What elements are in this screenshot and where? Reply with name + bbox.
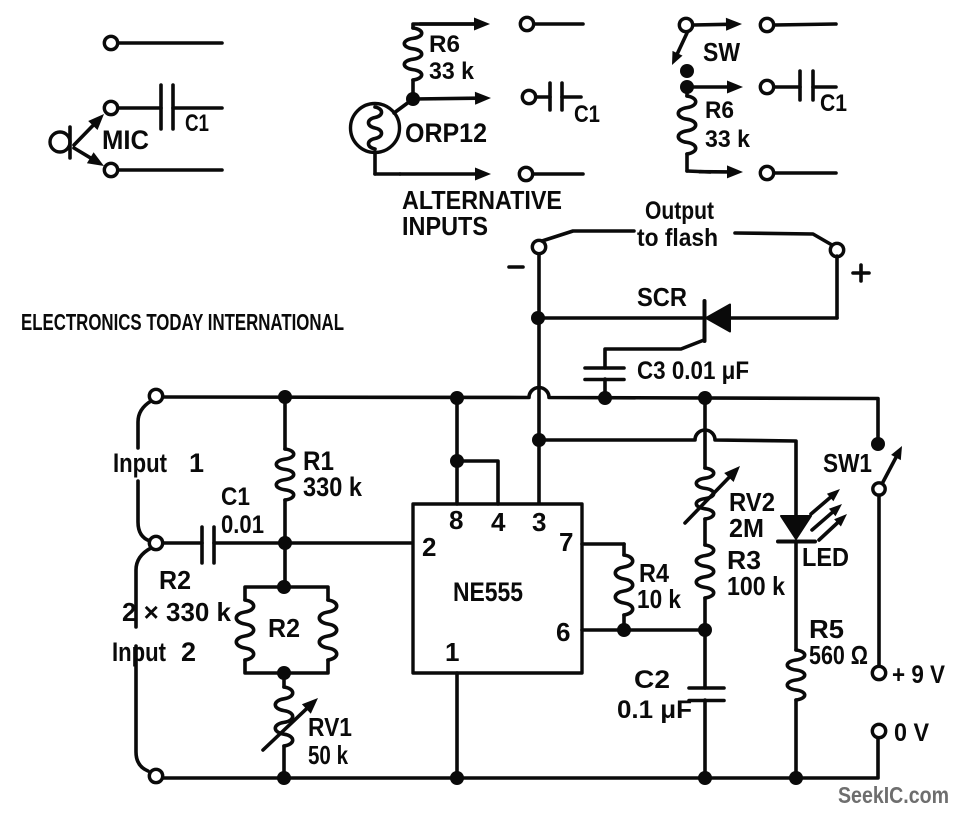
potentiometer RV1 (275, 673, 292, 778)
label 100 k (727, 571, 785, 601)
svg-text:SW1: SW1 (823, 448, 872, 478)
label ALTERNATIVE (402, 185, 562, 215)
label R4 (639, 558, 669, 588)
capacitor C1 (input) (163, 527, 278, 563)
label minus (509, 265, 523, 269)
label R1 (303, 446, 334, 476)
label R2 (268, 613, 300, 643)
arrow led light 1 (811, 489, 840, 514)
svg-text:50 k: 50 k (308, 740, 348, 770)
svg-text:10 k: 10 k (637, 584, 681, 614)
svg-text:C3 0.01 μF: C3 0.01 μF (637, 357, 749, 385)
wire bottom bus (163, 738, 878, 778)
label pin 1 (445, 637, 459, 667)
label SeekIC.com watermark (838, 782, 949, 808)
wire pin4 (457, 461, 498, 504)
label 10 k (637, 584, 681, 614)
svg-text:1: 1 (189, 448, 204, 478)
terminal alt mid (522, 90, 550, 103)
capacitor C3 (585, 368, 624, 398)
label to flash (637, 224, 718, 252)
node R2 top (277, 580, 291, 594)
node junction orp12 (406, 92, 420, 106)
wire scr gate (605, 340, 704, 368)
node scr anode (531, 311, 545, 325)
label NE555 (453, 577, 523, 607)
label 33 k (sw) (705, 126, 751, 153)
label pin 7 (559, 527, 573, 557)
svg-text:Input: Input (112, 637, 166, 667)
node SW1 top (871, 437, 885, 451)
arrow orp12 mid (413, 92, 491, 105)
label pin 2 (422, 532, 436, 562)
potentiometer RV2 (696, 398, 713, 545)
svg-text:MIC: MIC (102, 125, 149, 155)
svg-text:6: 6 (556, 617, 570, 647)
wire SW1 to +9V (877, 495, 881, 666)
label 560 ohm (809, 640, 868, 670)
svg-text:0 V: 0 V (894, 719, 929, 747)
label C1 (alt) (574, 101, 600, 128)
thyristor SCR (705, 256, 838, 341)
svg-text:33 k: 33 k (429, 58, 475, 85)
terminal alt top (520, 17, 583, 30)
label 33 k (orp12) (429, 58, 475, 85)
wire pin6 (582, 628, 705, 632)
resistor R6 (sw) (678, 93, 710, 172)
node R2 bottom (277, 666, 291, 680)
label R6 (sw) (705, 97, 734, 124)
terminal mic bottom (104, 163, 222, 176)
label C2 (634, 666, 670, 694)
svg-text:C1: C1 (221, 483, 250, 511)
svg-text:330 k: 330 k (303, 472, 363, 502)
terminal sw top-right (760, 18, 836, 31)
node bottom R5 (789, 771, 803, 785)
resistor R3 (696, 545, 713, 630)
capacitor C1 (sw) (800, 71, 836, 100)
label pin 3 (532, 507, 546, 537)
label Input 2 (112, 637, 196, 667)
svg-text:INPUTS: INPUTS (402, 211, 488, 241)
svg-text:to flash: to flash (637, 224, 718, 252)
label 0.01 (221, 511, 264, 539)
wire pin3 output line (539, 430, 796, 516)
label R5 (809, 614, 844, 644)
arrow RV1 (263, 698, 318, 750)
label R6 (orp12) (429, 31, 460, 58)
arrow sw top (693, 18, 742, 31)
node pin3 junction (532, 433, 546, 447)
arrow RV2 (685, 466, 740, 523)
terminal input1 (149, 389, 162, 402)
label RV1 (308, 712, 352, 742)
terminal bottom-left (149, 769, 162, 782)
label 0.1 uF (617, 696, 692, 724)
resistor R6 (orp12) (404, 24, 480, 99)
capacitor C2 (689, 630, 724, 778)
svg-text:33 k: 33 k (705, 126, 751, 153)
wire input1-2 link (138, 481, 150, 541)
label Output (645, 197, 715, 225)
svg-text:NE555: NE555 (453, 577, 523, 607)
led LED (778, 516, 815, 650)
capacitor C1 (alt) (550, 83, 581, 110)
svg-text:C1: C1 (574, 101, 600, 128)
svg-text:R2: R2 (268, 613, 300, 643)
label pin 8 (449, 505, 463, 535)
wire input1 lead (138, 401, 151, 448)
terminal input2 (149, 536, 162, 549)
node bottom pin1 (450, 771, 464, 785)
node bottom C2 (698, 771, 712, 785)
svg-text:2: 2 (181, 637, 196, 667)
label R2 left (159, 565, 191, 595)
svg-text:SeekIC.com: SeekIC.com (838, 782, 949, 808)
svg-text:ELECTRONICS TODAY INTERNATIONA: ELECTRONICS TODAY INTERNATIONAL (21, 309, 344, 335)
svg-text:Output: Output (645, 197, 715, 225)
label RV2 (729, 487, 775, 517)
wire output left (542, 231, 634, 241)
label R3 (727, 545, 761, 575)
wire pin1 (455, 673, 459, 778)
node sw dot lower (680, 80, 694, 94)
microphone MIC symbol (50, 127, 70, 158)
label C3 0.01 uF (637, 357, 749, 385)
svg-text:C2: C2 (634, 666, 670, 694)
terminal sw top-left (679, 18, 692, 31)
resistor R5 (787, 650, 804, 778)
svg-text:R2: R2 (159, 565, 191, 595)
node pin4 junction (450, 454, 464, 468)
svg-text:1: 1 (445, 637, 459, 667)
ic NE555 box (413, 504, 582, 673)
node bus pin8 (450, 391, 464, 405)
svg-text:2: 2 (422, 532, 436, 562)
resistor R4 (615, 544, 632, 630)
svg-text:R6: R6 (429, 31, 460, 58)
node sw dot upper (680, 64, 694, 78)
terminal mic top (104, 36, 222, 49)
node bus RV2 (698, 391, 712, 405)
label 50 k (308, 740, 348, 770)
svg-text:2 × 330 k: 2 × 330 k (122, 597, 232, 627)
label C1 (input) (221, 483, 250, 511)
label MIC (102, 125, 149, 155)
terminal sw bottom-right (760, 166, 836, 179)
switch SW1 pole (873, 483, 885, 495)
terminal alt bottom (519, 167, 583, 180)
arrow sw mid (694, 81, 743, 94)
label +9V (892, 661, 945, 689)
node bus R1 (278, 390, 292, 404)
capacitor C1 (mic) (161, 85, 222, 129)
node bus C3 (598, 391, 612, 405)
svg-text:3: 3 (532, 507, 546, 537)
label 2M (729, 513, 764, 543)
label C1 (sw) (820, 90, 847, 117)
wire pin7 (582, 542, 624, 546)
label 0V (894, 719, 929, 747)
svg-text:4: 4 (491, 507, 506, 537)
label C1 (mic) (185, 110, 209, 137)
svg-text:SCR: SCR (637, 282, 687, 312)
label pin 4 (491, 507, 506, 537)
svg-text:LED: LED (802, 542, 849, 572)
arrow orp12 top (420, 18, 490, 31)
terminal output minus (532, 240, 545, 253)
resistor R1 (276, 398, 293, 543)
svg-text:2M: 2M (729, 513, 764, 543)
wire orp12 bottom (375, 168, 491, 181)
node bottom RV1 (277, 771, 291, 785)
wire top bus (163, 388, 878, 445)
svg-text:C1: C1 (185, 110, 209, 137)
label SCR (637, 282, 687, 312)
node pin6 R3 (698, 623, 712, 637)
svg-text:7: 7 (559, 527, 573, 557)
svg-text:Input: Input (113, 448, 167, 478)
node pin6 R4 (617, 623, 631, 637)
svg-text:560 Ω: 560 Ω (809, 640, 868, 670)
photocell ORP12 (351, 99, 414, 174)
svg-text:SW: SW (703, 37, 740, 67)
switch SW1 arm (883, 446, 902, 482)
svg-text:0.01: 0.01 (221, 511, 264, 539)
svg-text:ORP12: ORP12 (405, 118, 487, 148)
label Input 1 (113, 448, 204, 478)
wire R2 top lead (283, 543, 287, 587)
terminal mic mid (104, 101, 161, 114)
arrow sw bottom (700, 165, 743, 178)
label 2 x 330 k (122, 597, 232, 627)
svg-text:C1: C1 (820, 90, 847, 117)
arrow led light 3 (819, 514, 847, 540)
switch SW arm (672, 33, 687, 65)
node pin2 junction (278, 536, 292, 550)
label ELECTRONICS TODAY INTERNATIONAL (21, 309, 344, 335)
terminal sw mid-right (760, 80, 800, 93)
wire output right (735, 233, 832, 245)
wire input2 lead (136, 548, 151, 771)
terminal +9V (872, 666, 885, 679)
svg-text:100 k: 100 k (727, 571, 785, 601)
svg-text:0.1 μF: 0.1 μF (617, 696, 692, 724)
resistor R2 pair (236, 587, 336, 673)
wire pin3 vertical (537, 254, 541, 504)
arrow led light 2 (812, 504, 842, 530)
label SW1 (823, 448, 872, 478)
mic arrow to bottom terminal (74, 148, 104, 166)
terminal output plus (830, 243, 843, 256)
label 330 k (303, 472, 363, 502)
label ORP12 (405, 118, 487, 148)
terminal 0V (872, 724, 885, 737)
wire scr anode (539, 316, 702, 320)
label LED (802, 542, 849, 572)
mic arrow to mid terminal (74, 114, 104, 145)
label plus (853, 265, 869, 281)
label SW (703, 37, 740, 67)
svg-text:RV1: RV1 (308, 712, 352, 742)
label pin 6 (556, 617, 570, 647)
label INPUTS (402, 211, 488, 241)
svg-text:8: 8 (449, 505, 463, 535)
svg-text:R6: R6 (705, 97, 734, 124)
wire pin8 vertical (455, 398, 459, 504)
wire pin2 (285, 541, 413, 545)
svg-text:+ 9 V: + 9 V (892, 661, 945, 689)
